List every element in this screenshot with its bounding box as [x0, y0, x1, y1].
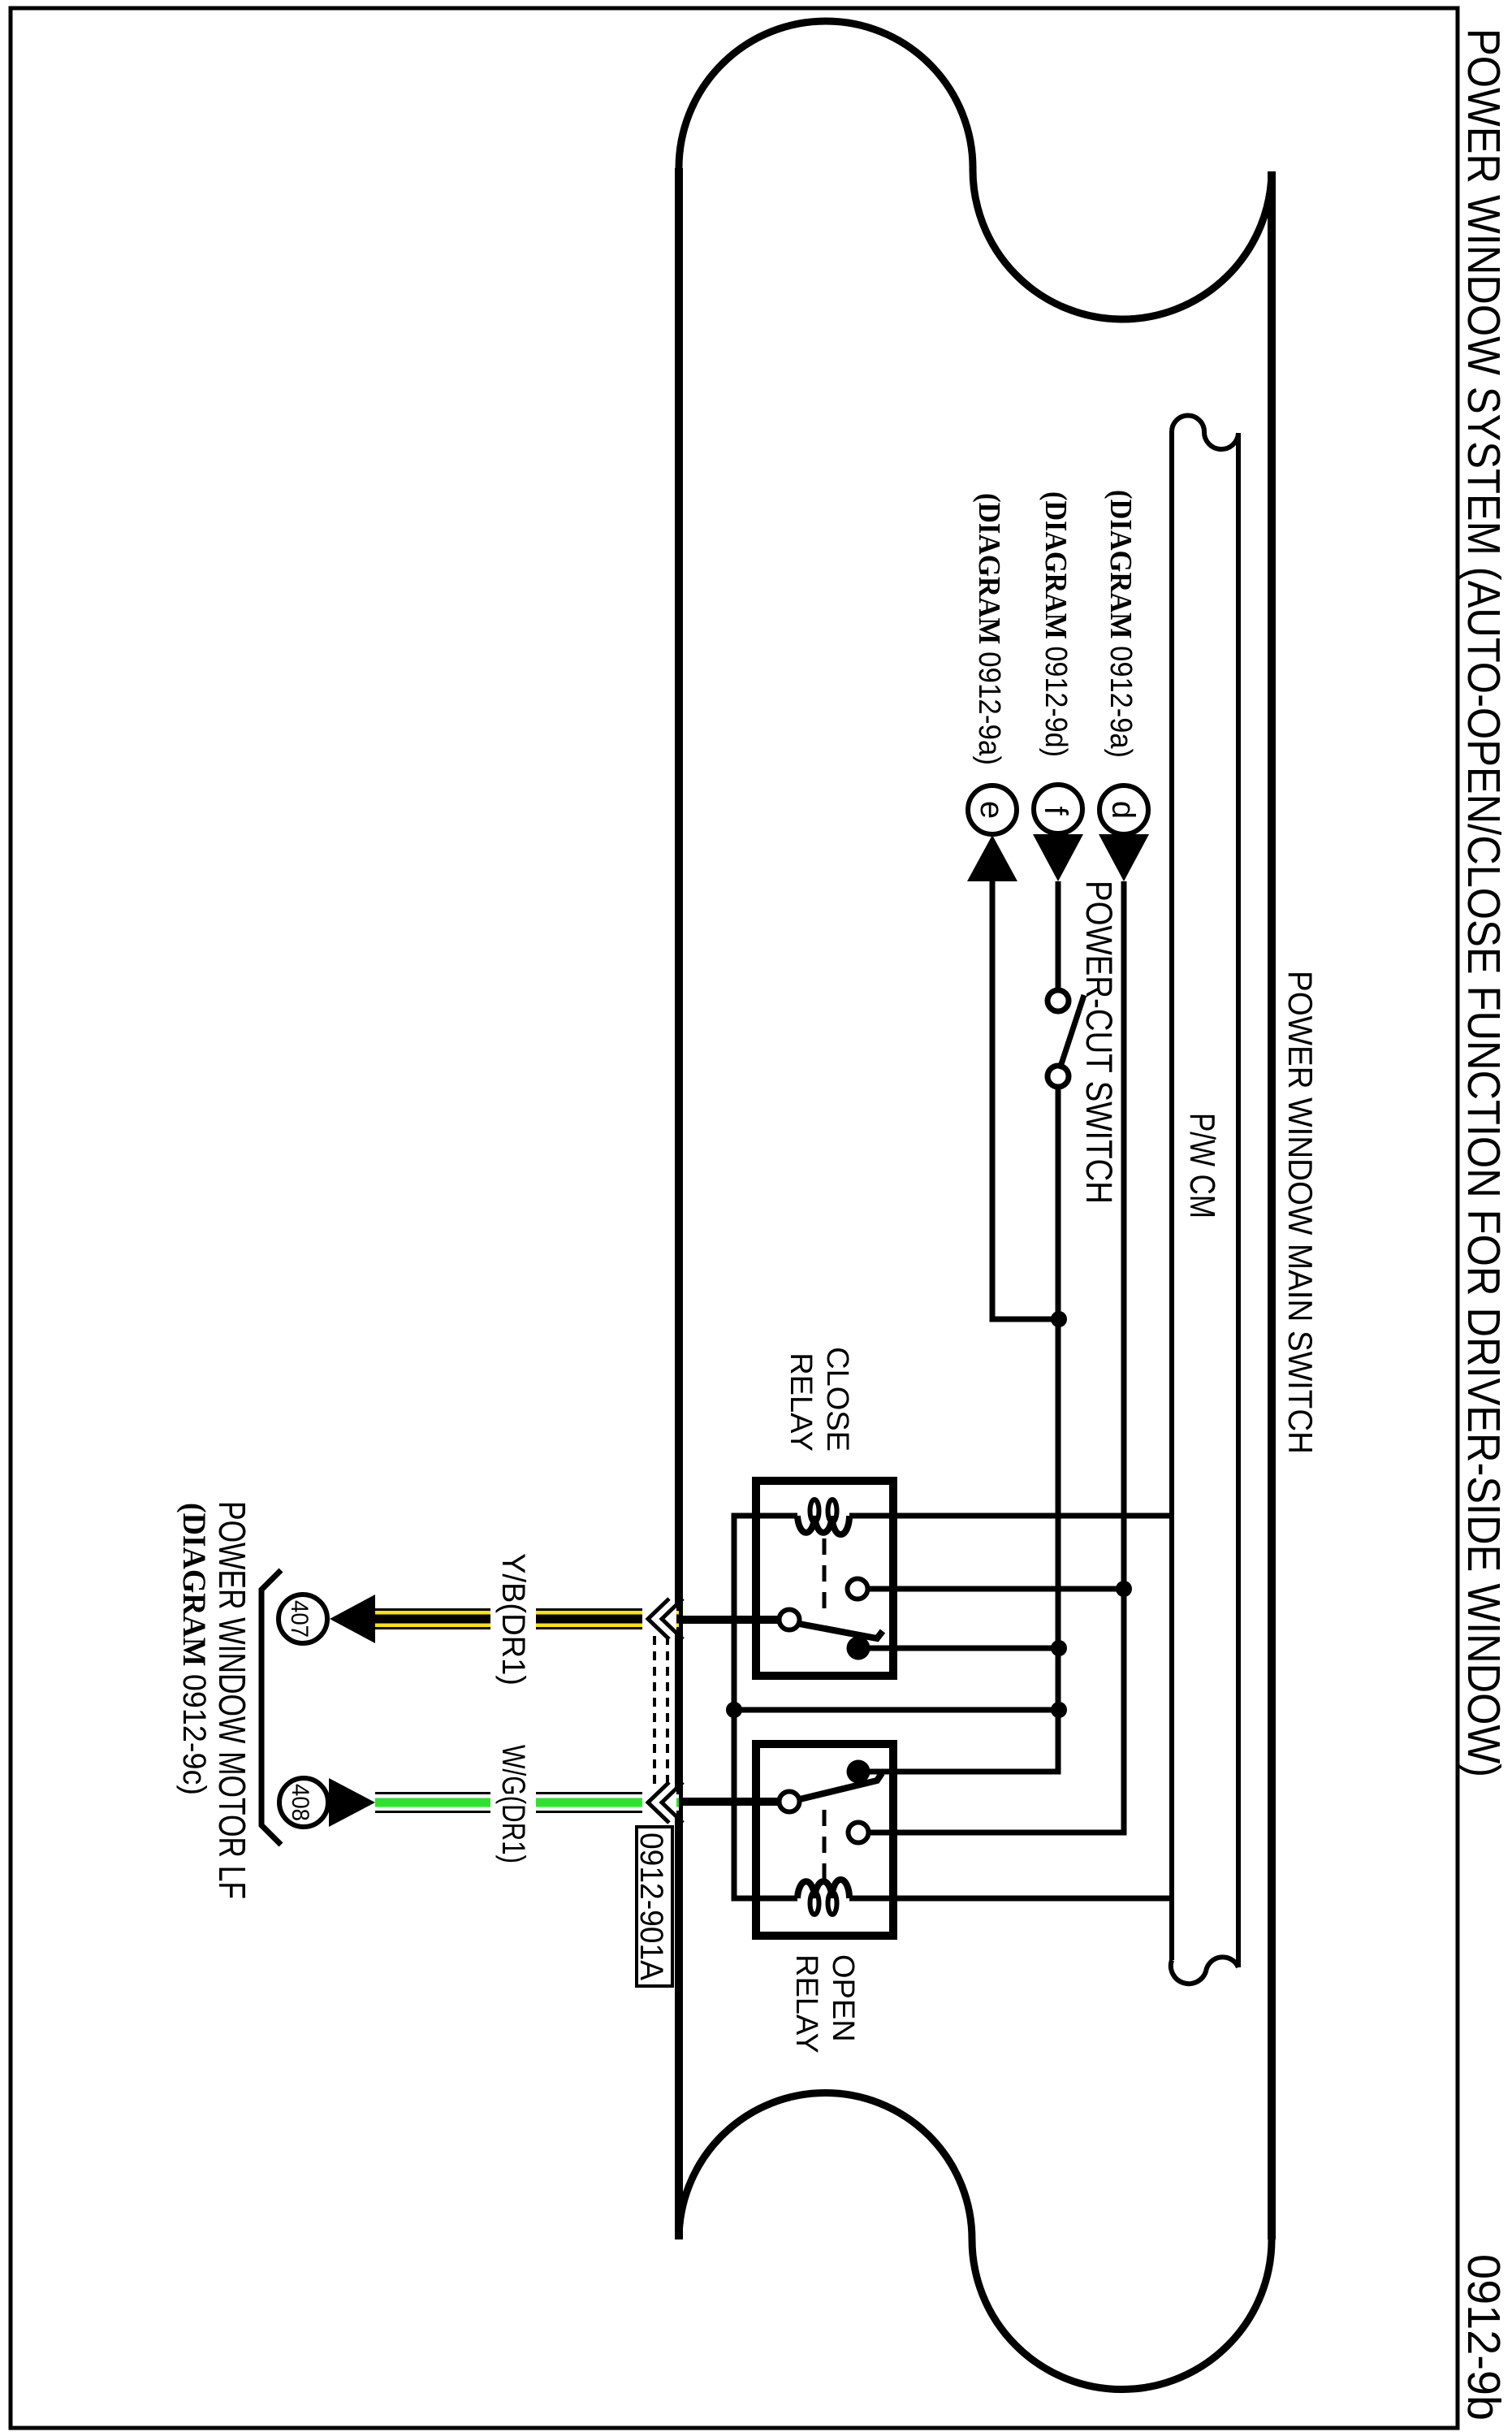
arrow to motor 407 [330, 1595, 375, 1643]
svg-text:(DIAGRAM 0912-9a): (DIAGRAM 0912-9a) [972, 493, 1006, 765]
main switch box right break edge [679, 2093, 1272, 2390]
close relay blade [799, 1624, 883, 1638]
wire d vertical [869, 881, 1124, 1833]
connector chevrons on W/G [648, 1782, 669, 1823]
svg-text:408: 408 [287, 1784, 313, 1821]
connector circle e [968, 785, 1017, 834]
P/W CM box right break edge [1171, 1957, 1238, 1984]
arrow from 408 [329, 1778, 375, 1827]
power window main switch box outline (break-edge S curves) [679, 21, 1272, 2390]
power-cut switch blade [1060, 995, 1084, 1069]
wire Y/B(DR1) motor close feed [375, 1606, 679, 1632]
wire close relay common (to Y/B) [679, 1616, 779, 1624]
arrow into d wire [1099, 834, 1149, 881]
wire coil feed vertical [734, 1516, 797, 1898]
connector chevrons on Y/B [648, 1599, 669, 1639]
svg-text:POWER WINDOW MAIN SWITCH: POWER WINDOW MAIN SWITCH [1281, 971, 1320, 1454]
connector label box 0912-901A [637, 1827, 672, 1986]
connector boundary dashed pair [653, 1636, 656, 1784]
wire f below switch [870, 1087, 1058, 1772]
svg-text:0912-901A: 0912-901A [633, 1833, 669, 1980]
wire open relay common (to W/G) [679, 1798, 779, 1806]
arrow into f wire [1033, 834, 1083, 881]
close relay NC contact [847, 1637, 870, 1660]
close relay actuation dashed link [823, 1538, 827, 1615]
svg-text:0912-9b: 0912-9b [1458, 2254, 1510, 2421]
power-cut switch contact [1048, 990, 1069, 1011]
svg-text:POWER-CUT SWITCH: POWER-CUT SWITCH [1078, 881, 1120, 1204]
svg-text:P/W CM: P/W CM [1182, 1113, 1222, 1218]
P/W CM box top edge [1236, 433, 1241, 1967]
node coil feed to f [1051, 1702, 1067, 1718]
arrow out to e [967, 835, 1017, 881]
relay CLOSE RELAY box [756, 1481, 893, 1676]
connector circle 407 [279, 1595, 327, 1643]
svg-text:(DIAGRAM 0912-9a): (DIAGRAM 0912-9a) [1104, 490, 1138, 758]
close relay coil [797, 1516, 849, 1534]
open relay coil [797, 1880, 849, 1898]
svg-text:(DIAGRAM 0912-9c): (DIAGRAM 0912-9c) [176, 1503, 213, 1795]
wire close relay NO contact [868, 1586, 1124, 1592]
connector circle 408 [279, 1778, 328, 1827]
main switch box top edge [1268, 171, 1276, 2239]
svg-text:Y/B(DR1): Y/B(DR1) [495, 1553, 531, 1686]
wire open relay coil to P/W CM [849, 1896, 1172, 1902]
svg-text:(DIAGRAM 0912-9d): (DIAGRAM 0912-9d) [1039, 491, 1073, 757]
wire open relay NC contact [870, 1769, 1059, 1775]
node coil link [726, 1702, 742, 1718]
wire e [992, 881, 1059, 1319]
svg-text:d: d [1105, 801, 1141, 819]
svg-text:f: f [1038, 806, 1074, 816]
close relay NO contact [848, 1579, 868, 1599]
bracket for motor connectors [261, 1570, 281, 1845]
open relay NC contact [847, 1760, 870, 1784]
open relay pivot contact [780, 1792, 800, 1812]
wire W/G(DR1) motor open feed [375, 1789, 679, 1815]
relay OPEN RELAY box [756, 1744, 893, 1936]
svg-text:POWER WINDOW SYSTEM (AUTO-OPEN: POWER WINDOW SYSTEM (AUTO-OPEN/CLOSE FUN… [1458, 28, 1510, 1777]
open relay actuation dashed link [823, 1810, 827, 1886]
node close relay NO contact to f [1051, 1640, 1067, 1656]
connector circle d [1099, 785, 1148, 834]
svg-text:RELAY: RELAY [784, 1352, 818, 1452]
P/W CM box left break edge [1172, 416, 1238, 450]
P/W CM module box [1171, 416, 1238, 1984]
power-cut switch contact [1048, 1066, 1069, 1087]
svg-text:RELAY: RELAY [789, 1954, 823, 2053]
P/W CM box bottom edge [1169, 432, 1174, 1960]
wire f to power-cut switch [1056, 881, 1061, 990]
node e-f junction [1051, 1311, 1067, 1327]
close relay pivot contact [780, 1610, 800, 1630]
svg-text:W/G(DR1): W/G(DR1) [495, 1745, 531, 1863]
wire close relay NC contact [870, 1646, 1059, 1651]
svg-text:407: 407 [286, 1600, 313, 1638]
node d / close relay contact [1116, 1581, 1132, 1597]
open relay blade [800, 1773, 882, 1799]
main switch box bottom edge [675, 168, 683, 2239]
svg-text:CLOSE: CLOSE [820, 1347, 854, 1452]
svg-text:e: e [974, 801, 1009, 819]
open relay NO contact [849, 1823, 869, 1843]
wire coil link horizontal [734, 1707, 1059, 1713]
svg-text:OPEN: OPEN [826, 1954, 860, 2042]
main switch box left break edge [679, 21, 1272, 319]
connector circle f [1034, 785, 1082, 833]
wire close relay coil to P/W CM [849, 1513, 1172, 1519]
svg-text:POWER WINDOW MOTOR LF: POWER WINDOW MOTOR LF [211, 1501, 253, 1899]
